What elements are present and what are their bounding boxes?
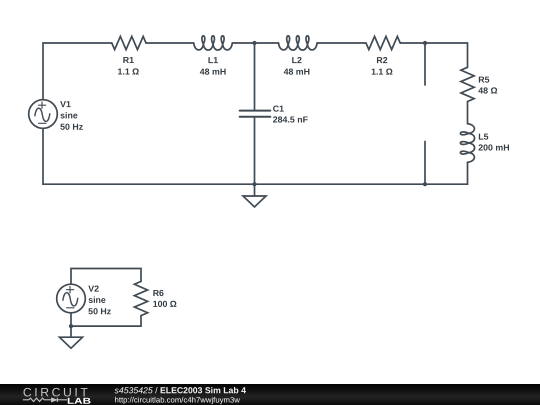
svg-text:1.1 Ω: 1.1 Ω bbox=[371, 67, 393, 77]
svg-text:C1: C1 bbox=[273, 104, 284, 114]
wire R6 bottom to V2 bottom bbox=[71, 316, 141, 327]
svg-text:V1: V1 bbox=[60, 99, 71, 109]
V1 minus sign bbox=[39, 122, 47, 124]
ground main: stub bbox=[254, 184, 256, 196]
resistor R5 bbox=[461, 67, 474, 101]
V2 minus sign bbox=[67, 307, 75, 309]
svg-text:50 Hz: 50 Hz bbox=[88, 306, 112, 316]
wire L5 to bottom-right corner to bottom rail bbox=[43, 162, 468, 184]
svg-text:V2: V2 bbox=[88, 284, 99, 294]
svg-text:sine: sine bbox=[88, 295, 106, 305]
logo squiggle wire right bbox=[57, 399, 67, 401]
svg-text:1.1 Ω: 1.1 Ω bbox=[118, 67, 140, 77]
junction dot node B bottom bbox=[423, 182, 427, 186]
junction dot node B top bbox=[423, 41, 427, 45]
svg-text:100 Ω: 100 Ω bbox=[153, 299, 177, 309]
svg-text:R1: R1 bbox=[123, 55, 134, 65]
svg-text:48 mH: 48 mH bbox=[284, 67, 310, 77]
svg-text:48 Ω: 48 Ω bbox=[478, 85, 497, 95]
resistor R2 bbox=[366, 36, 400, 49]
svg-text:48 mH: 48 mH bbox=[200, 67, 226, 77]
footer bar bbox=[0, 384, 540, 405]
capacitor C1 bbox=[240, 111, 271, 117]
svg-text:L2: L2 bbox=[292, 55, 302, 65]
wire V2 bottom lead bbox=[70, 312, 72, 326]
inductor L2 bbox=[279, 36, 318, 50]
V1 plus sign bbox=[38, 102, 45, 109]
logo squiggle resistor bbox=[29, 398, 44, 401]
svg-text:200 mH: 200 mH bbox=[478, 142, 509, 152]
logo squiggle wire left bbox=[23, 399, 29, 401]
ground V2: stub bbox=[70, 326, 72, 337]
wire top-left: V1 top to R1 bbox=[43, 43, 112, 100]
logo diode triangle bbox=[52, 398, 57, 402]
wire C1 branch top bbox=[254, 43, 256, 111]
logo squiggle wire mid bbox=[44, 399, 52, 401]
wire node A to L2 bbox=[255, 42, 279, 44]
wire L1 to node A bbox=[232, 42, 254, 44]
wire R5 to L5 bbox=[467, 102, 469, 124]
svg-text:http://circuitlab.com/c4h7wwjf: http://circuitlab.com/c4h7wwjfuym3w bbox=[115, 395, 241, 404]
wire R2 to top-right corner and down to R5 bbox=[400, 43, 467, 67]
svg-text:s4535425 / ELEC2003 Sim Lab 4: s4535425 / ELEC2003 Sim Lab 4 bbox=[115, 385, 247, 395]
stub wire top at node B x=425 bbox=[424, 43, 426, 85]
wire left rail bottom: V1 bottom to bottom rail bbox=[42, 128, 44, 184]
wire L2 to R2 bbox=[317, 42, 366, 44]
inductor L1 bbox=[194, 36, 233, 50]
voltage source V2 circle bbox=[57, 284, 86, 313]
stub wire bottom at node B x=425 bbox=[424, 142, 426, 185]
junction dot V2 ground node bbox=[69, 324, 73, 328]
svg-text:284.5 nF: 284.5 nF bbox=[273, 114, 309, 124]
svg-text:R6: R6 bbox=[153, 288, 164, 298]
junction dot node A top of C1 bbox=[252, 41, 256, 45]
ground main: triangle bbox=[243, 196, 266, 207]
wire V2 top lead bbox=[71, 269, 141, 285]
ground V2: triangle bbox=[60, 337, 83, 348]
svg-text:L1: L1 bbox=[208, 55, 218, 65]
wire R1 to L1 bbox=[146, 42, 194, 44]
V2 sine wave bbox=[63, 293, 78, 306]
resistor R6 bbox=[134, 281, 147, 315]
junction dot ground node bbox=[252, 182, 256, 186]
svg-text:sine: sine bbox=[60, 110, 78, 120]
svg-text:L5: L5 bbox=[478, 132, 488, 142]
resistor R1 bbox=[112, 36, 146, 49]
svg-text:50 Hz: 50 Hz bbox=[60, 122, 84, 132]
wire C1 branch bottom bbox=[254, 117, 256, 184]
V1 sine wave bbox=[35, 108, 50, 121]
svg-text:R2: R2 bbox=[376, 55, 387, 65]
logo diode bar bbox=[56, 398, 58, 402]
V2 plus sign bbox=[66, 286, 73, 293]
voltage source V1 circle bbox=[29, 100, 58, 129]
inductor L5 bbox=[460, 124, 474, 163]
svg-text:LAB: LAB bbox=[67, 396, 91, 405]
svg-text:R5: R5 bbox=[478, 75, 489, 85]
